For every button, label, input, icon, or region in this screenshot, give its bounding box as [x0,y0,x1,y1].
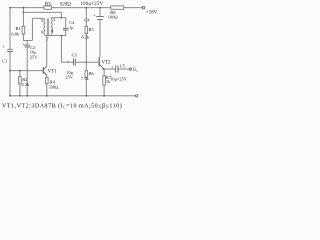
node dot gnd-R7 [103,95,105,97]
svg-text:25V: 25V [30,55,38,60]
svg-text:25V: 25V [65,75,73,80]
svg-text:R3: R3 [45,2,51,7]
svg-text:VT2: VT2 [102,60,111,65]
capacitor C2 [26,40,28,95]
resistor R6 [85,62,87,71]
svg-text:R5: R5 [89,27,95,32]
transformer core [47,18,48,35]
wire B pin3 to C4 [51,18,65,28]
capacitor C1 [7,49,12,51]
transistor VT2 [98,57,100,66]
transformer T left winding [44,19,45,35]
node dot wireA-wireB [60,17,62,19]
node dot tank-C3 tap [61,35,63,37]
svg-text:4: 4 [51,28,54,33]
ground rail [10,95,136,97]
wire R1 vertical upper [22,8,24,27]
wire R1 bottom to node A [23,34,32,40]
wire C4 bottom to tank bottom [45,30,66,36]
svg-text:VT1: VT1 [48,69,57,74]
resistor R4 [46,78,49,84]
terminal Uo [129,68,131,70]
wire A tank top feed [23,12,61,17]
svg-text:T: T [46,37,49,42]
svg-text:100Ω: 100Ω [108,15,119,20]
wire VT1 collector [46,36,48,67]
capacitor C5 [116,66,118,73]
resistor R1 [22,26,25,34]
wire VT1 base [10,70,43,72]
transistor VT1 [42,67,44,74]
wire C3 to VT2 base [86,61,99,63]
svg-text:8.2k: 8.2k [81,34,89,39]
wire C1 branch upper [9,8,11,50]
node dot rail-C4 [99,7,101,9]
wire VT1 emitter [46,75,48,78]
svg-text:1μ: 1μ [69,25,74,30]
terminal +18V [142,7,144,9]
svg-text:+: + [3,44,6,49]
svg-text:10μ×25V: 10μ×25V [110,77,128,82]
node dot gnd-R2 [19,95,21,97]
node dot base-C1 [9,70,11,72]
node dot rail-R1 [23,7,25,9]
node dot gnd-R6 [85,95,87,97]
node dot rail-R5 [85,7,87,9]
svg-text:330Ω: 330Ω [49,84,60,89]
svg-text:C1: C1 [2,59,7,64]
node dot gnd-R4 [46,95,48,97]
svg-text:100μ×25V: 100μ×25V [81,2,104,7]
svg-text:o: o [136,69,138,73]
svg-text:R6: R6 [89,71,95,76]
node dot base-R2 [19,70,21,72]
resistor R5 [85,8,87,27]
svg-text:6.8k: 6.8k [12,31,20,36]
svg-text:C4: C4 [84,18,90,23]
resistor R7 [103,69,105,76]
svg-text:VT1,VT2:3DA87B (IC=10 mA,50≤β≤: VT1,VT2:3DA87B (IC=10 mA,50≤β≤110) [2,103,122,110]
svg-text:+18V: +18V [146,11,158,16]
svg-text:+: + [67,59,70,64]
node dot wireA-R1 [23,11,25,13]
wire tank bottom to C3 [60,36,62,63]
svg-text:+: + [93,12,96,17]
capacitor C4 100u electrolytic [99,8,101,17]
resistor R3 [44,6,52,9]
capacitor C3 [61,61,86,63]
node dot C3-R5R6 [85,61,87,63]
wire output [104,68,129,70]
resistor R8 [111,6,124,9]
wire pin5 loop [32,18,44,40]
svg-text:7.5k: 7.5k [81,76,89,81]
node dot gnd-C2 [26,95,28,97]
transformer T right winding [51,19,52,35]
wire C1 branch lower [9,52,11,96]
capacitor C4 1u [63,28,69,30]
wire top supply rail [10,7,142,9]
resistor R2 [19,71,21,77]
node dot gnd-C1 [9,95,11,97]
svg-text:2.2k: 2.2k [22,82,30,87]
svg-text:820Ω: 820Ω [60,2,71,7]
node dot rail-C1 [9,7,11,9]
node dot VT2 emitter [103,68,105,70]
svg-text:C5: C5 [120,63,126,68]
wire C4 to VT2 collector [99,20,101,58]
svg-text:C3: C3 [72,52,78,57]
terminal ground [136,95,138,97]
